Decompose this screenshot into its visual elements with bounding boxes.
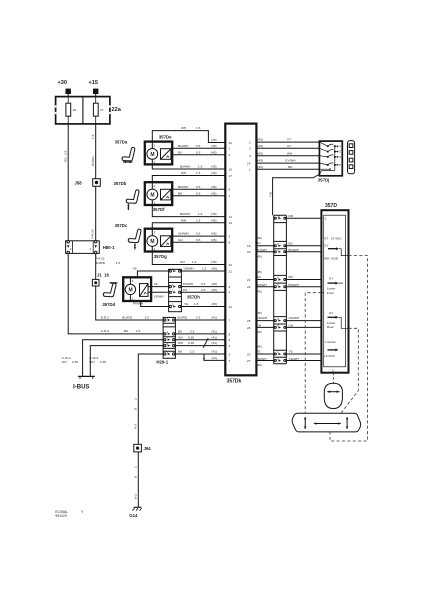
- svg-text:14: 14: [247, 162, 251, 166]
- svg-text:(41): (41): [212, 330, 218, 334]
- svg-text:BU/WH: BU/WH: [178, 144, 188, 148]
- svg-text:0.5: 0.5: [196, 232, 201, 236]
- svg-text:6: 6: [229, 188, 231, 192]
- svg-text:GN: GN: [178, 335, 183, 339]
- svg-text:357Da: 357Da: [115, 140, 128, 145]
- svg-text:(45): (45): [256, 236, 262, 240]
- wire 357Dd M- via 357Dh to pin 12: [133, 301, 225, 307]
- svg-text:BU/RD: BU/RD: [122, 315, 132, 319]
- svg-text:357Df: 357Df: [153, 207, 165, 212]
- motor unit 357Dg: [145, 229, 172, 259]
- svg-text:4: 4: [229, 194, 231, 198]
- svg-text:1: 1: [339, 144, 341, 148]
- dashed link 357D to seat switch (left): [305, 293, 321, 414]
- svg-text:19: 19: [229, 221, 233, 225]
- svg-text:GN: GN: [256, 324, 261, 328]
- svg-text:BU: BU: [256, 241, 260, 245]
- svg-text:Front: Front: [327, 291, 334, 295]
- seat icon 357Da (fore/aft): [115, 140, 135, 164]
- wire 357Dk to 357Dj (GY/WH): [256, 159, 319, 163]
- svg-text:(45): (45): [256, 363, 262, 367]
- svg-text:1.5: 1.5: [192, 260, 197, 264]
- dashed link 357D to seat switch (right outer): [330, 256, 368, 441]
- svg-text:10: 10: [229, 141, 233, 145]
- svg-text:GY/WH: GY/WH: [285, 159, 295, 163]
- svg-text:YE: YE: [256, 350, 260, 354]
- wire 357Dg M- to pin 20: [152, 252, 225, 265]
- svg-text:1.5: 1.5: [196, 126, 201, 130]
- svg-text:12: 12: [229, 305, 233, 309]
- svg-text:(45): (45): [211, 212, 217, 216]
- svg-text:P/4-22: P/4-22: [90, 229, 94, 238]
- svg-text:M: M: [129, 287, 133, 293]
- wire 357Dj common down to H-strip: [269, 174, 330, 215]
- svg-text:H80-1: H80-1: [103, 245, 115, 250]
- svg-text:1: 1: [249, 168, 251, 172]
- svg-text:BN/WH: BN/WH: [178, 185, 188, 189]
- wire 357Dg sensor to pin 3: [172, 232, 225, 236]
- wire 357De M- to pin 15: [152, 164, 225, 169]
- 357Dk right pin numbers: [247, 141, 251, 363]
- svg-text:(45): (45): [211, 165, 217, 169]
- svg-text:5: 5: [229, 241, 231, 245]
- wire 357Dk to 357D (BN/WH): [256, 283, 321, 293]
- svg-text:(45): (45): [258, 151, 264, 155]
- svg-text:RD: RD: [288, 165, 293, 169]
- headrest knob symbol: [324, 383, 342, 408]
- wire 357Dk to 357Dj (VT): [256, 138, 319, 142]
- svg-text:Lumbar: Lumbar: [325, 340, 336, 344]
- seat icon 357Dc (rear height): [115, 223, 141, 250]
- svg-text:BU/RD: BU/RD: [178, 316, 188, 320]
- svg-text:BN/WH: BN/WH: [180, 212, 190, 216]
- svg-text:20: 20: [247, 250, 251, 254]
- wire 357Dd sensor via 357Dh: [151, 288, 225, 299]
- svg-text:YE: YE: [133, 267, 137, 271]
- svg-text:3: 3: [339, 155, 341, 159]
- svg-text:26: 26: [73, 108, 77, 112]
- svg-text:YE/WH: YE/WH: [184, 267, 194, 271]
- svg-text:BN/WH: BN/WH: [289, 283, 299, 287]
- svg-text:1.5: 1.5: [194, 302, 199, 306]
- svg-text:A-3: A-3: [133, 424, 137, 429]
- svg-text:7: 7: [229, 318, 231, 322]
- svg-text:8: 8: [229, 332, 231, 336]
- svg-text:PK/WH: PK/WH: [133, 302, 143, 306]
- svg-text:(45): (45): [211, 150, 217, 154]
- svg-text:BU: BU: [178, 150, 182, 154]
- svg-text:2.5: 2.5: [136, 329, 141, 333]
- svg-text:J94: J94: [144, 446, 152, 451]
- svg-text:0.5: 0.5: [196, 150, 201, 154]
- connector H80-1: [66, 229, 115, 254]
- svg-text:0.5: 0.5: [201, 288, 206, 292]
- svg-text:0.5: 0.5: [196, 191, 201, 195]
- svg-text:(45): (45): [211, 138, 217, 142]
- svg-text:357De: 357De: [159, 134, 172, 139]
- svg-text:GN: GN: [62, 360, 67, 364]
- svg-text:18: 18: [247, 244, 251, 248]
- wire supply +30 down to H29-1: [68, 94, 163, 334]
- svg-text:2: 2: [132, 279, 134, 283]
- svg-text:(45): (45): [256, 330, 262, 334]
- svg-text:+5 VDC: +5 VDC: [324, 354, 336, 358]
- svg-text:(45): (45): [212, 282, 218, 286]
- svg-text:GY: GY: [329, 277, 333, 281]
- svg-text:1: 1: [325, 216, 327, 220]
- svg-text:357Dd: 357Dd: [102, 302, 115, 307]
- svg-text:GN: GN: [178, 238, 183, 242]
- wire 357De sensor to pin 1: [172, 144, 225, 148]
- svg-text:(45): (45): [256, 254, 262, 258]
- svg-text:(45): (45): [212, 267, 218, 271]
- wire label BK 2.0 below J94 (rotated): [133, 466, 137, 499]
- svg-text:1.5: 1.5: [116, 261, 121, 265]
- svg-text:357Db: 357Db: [114, 181, 127, 186]
- svg-text:2.5: 2.5: [196, 316, 201, 320]
- wire 357Dk to 357D (GN/WH): [256, 311, 321, 321]
- svg-text:21: 21: [229, 269, 233, 273]
- svg-text:1: 1: [89, 247, 91, 251]
- motor unit 357Dd (backrest motor): [123, 277, 151, 301]
- svg-text:J1 18: J1 18: [97, 272, 110, 277]
- wire 357Dk to 357Dj (RD): [256, 165, 319, 169]
- svg-text:(45): (45): [256, 270, 262, 274]
- svg-text:(45): (45): [211, 232, 217, 236]
- svg-text:YE: YE: [154, 282, 158, 286]
- svg-text:(45): (45): [211, 185, 217, 189]
- svg-text:2: 2: [229, 285, 231, 289]
- svg-text:(45): (45): [211, 218, 217, 222]
- control module 357D: [321, 203, 348, 373]
- svg-text:GY: GY: [329, 311, 333, 315]
- dashed link 357D to headrest knob: [333, 373, 335, 384]
- svg-text:357Dh: 357Dh: [187, 294, 200, 299]
- svg-text:2: 2: [332, 368, 334, 372]
- wire label C-R-2 BK 2.5: [101, 329, 141, 333]
- seat icon 357Dd (head restraint): [102, 282, 117, 308]
- svg-text:2.5: 2.5: [190, 330, 195, 334]
- svg-text:(45): (45): [211, 260, 217, 264]
- svg-text:4: 4: [249, 154, 251, 158]
- wire 357De M+ to 357Dk pin 10: [152, 126, 225, 142]
- motor unit 357De: [145, 134, 172, 164]
- svg-text:21: 21: [247, 278, 251, 282]
- svg-text:357Dg: 357Dg: [154, 254, 167, 259]
- svg-text:(45): (45): [211, 238, 217, 242]
- wire label RD 2.5 (left supply, rotated): [63, 150, 67, 162]
- connector J94: [134, 444, 151, 452]
- fuse box 22a: [55, 97, 122, 124]
- svg-text:BU/RD: BU/RD: [95, 261, 105, 265]
- svg-text:GY: GY: [287, 144, 291, 148]
- svg-text:E-R-2: E-R-2: [101, 315, 109, 319]
- svg-text:I-BUS: I-BUS: [73, 384, 89, 390]
- svg-text:3: 3: [229, 235, 231, 239]
- wire 357Dk to 357Dj (WH): [256, 151, 319, 155]
- motor unit 357Df: [145, 182, 172, 212]
- svg-text:8: 8: [339, 163, 341, 167]
- svg-text:WH: WH: [89, 360, 94, 364]
- svg-text:0.35: 0.35: [188, 335, 194, 339]
- connector H29-1: [156, 316, 175, 365]
- svg-text:0.35: 0.35: [100, 360, 106, 364]
- svg-text:1: 1: [229, 147, 231, 151]
- svg-text:3: 3: [249, 147, 251, 151]
- svg-text:WH: WH: [178, 341, 183, 345]
- svg-text:B-2: B-2: [133, 494, 137, 499]
- svg-text:WH: WH: [181, 126, 186, 130]
- svg-text:(45): (45): [256, 311, 262, 315]
- svg-text:2: 2: [339, 150, 341, 154]
- svg-text:357D: 357D: [325, 203, 337, 209]
- svg-text:24: 24: [247, 285, 251, 289]
- svg-text:5: 5: [229, 338, 231, 342]
- svg-text:(45): (45): [258, 138, 264, 142]
- svg-text:B: B: [133, 476, 137, 478]
- wire I-bus WH to I-BUS rail: [90, 346, 163, 376]
- svg-text:YE/WH: YE/WH: [289, 357, 299, 361]
- svg-text:BU/RD: BU/RD: [91, 156, 95, 166]
- svg-text:357Dj: 357Dj: [318, 178, 329, 183]
- svg-text:H29-1: H29-1: [156, 360, 168, 365]
- svg-text:2: 2: [133, 466, 137, 468]
- connector 357Dh: [169, 267, 201, 311]
- svg-text:(45): (45): [211, 144, 217, 148]
- svg-text:4: 4: [229, 291, 231, 295]
- svg-text:WH: WH: [181, 218, 186, 222]
- wire H29-1 to 357Dk (WH 0.35 I-bus): [175, 341, 225, 345]
- wire 357Dg M+ to pin 19: [152, 218, 225, 228]
- connector ladder strip (between 357Dk and 357D): [274, 215, 287, 364]
- svg-text:20: 20: [229, 263, 233, 267]
- connector strip (4 terminals) right of 357Dj: [348, 141, 355, 174]
- harness connector 357Dk: [225, 124, 256, 385]
- svg-text:BN: BN: [289, 275, 293, 279]
- svg-text:1.5: 1.5: [196, 218, 201, 222]
- svg-text:(45): (45): [212, 288, 218, 292]
- svg-text:RD: RD: [289, 214, 294, 218]
- wire 357Dk to 357D (YE): [256, 344, 321, 354]
- svg-text:VT +5 VDC: VT +5 VDC: [324, 237, 342, 241]
- svg-text:Rear: Rear: [327, 325, 334, 329]
- svg-text:BU/WH: BU/WH: [180, 165, 190, 169]
- svg-text:GN/WH: GN/WH: [178, 232, 189, 236]
- svg-text:2: 2: [229, 153, 231, 157]
- wire label E-R-2 BU/RD 2.5: [101, 315, 149, 319]
- svg-text:(45): (45): [211, 171, 217, 175]
- svg-text:22: 22: [247, 352, 251, 356]
- wire 357Dg sensor to pin 5: [172, 238, 225, 242]
- svg-text:BU/WH: BU/WH: [289, 248, 299, 252]
- fuse 27: [93, 97, 103, 124]
- svg-text:1.0: 1.0: [190, 350, 195, 354]
- svg-text:YE: YE: [184, 302, 188, 306]
- svg-text:BU/WH: BU/WH: [256, 248, 266, 252]
- connector J1 18: [92, 272, 109, 286]
- svg-text:GN/WH: GN/WH: [289, 316, 300, 320]
- svg-text:(45): (45): [258, 144, 264, 148]
- svg-text:PK/WH: PK/WH: [183, 282, 193, 286]
- wire H29-1 to 357Dk pin (BU/RD 2.5): [175, 316, 225, 320]
- svg-text:GY: GY: [324, 243, 328, 247]
- seat adjuster switch symbol: [292, 413, 361, 432]
- svg-text:GN/WH: GN/WH: [256, 316, 267, 320]
- svg-text:3: 3: [229, 352, 231, 356]
- svg-text:BN: BN: [178, 191, 182, 195]
- svg-text:1.5: 1.5: [202, 267, 207, 271]
- terminal +30: [58, 80, 71, 94]
- svg-text:0.35: 0.35: [188, 341, 194, 345]
- svg-text:YE: YE: [289, 350, 293, 354]
- wire 357Dk to 357D (BU/WH): [256, 248, 321, 258]
- switch pack 357Dj: [319, 141, 342, 176]
- svg-text:(41): (41): [212, 335, 218, 339]
- svg-text:(45): (45): [256, 344, 262, 348]
- wire label BK 2.0 (rotated): [133, 398, 137, 429]
- wire label BU/RD 1.5 (right supply, rotated): [91, 134, 95, 166]
- svg-text:GN: GN: [289, 324, 294, 328]
- svg-text:(45): (45): [258, 165, 264, 169]
- wire ground BK to G14: [138, 354, 163, 507]
- svg-text:26: 26: [247, 326, 251, 330]
- wire 357Dk to 357D (BU): [256, 236, 321, 246]
- svg-text:(41): (41): [212, 350, 218, 354]
- svg-text:2: 2: [249, 141, 251, 145]
- svg-text:C-R-2: C-R-2: [101, 329, 110, 333]
- 357Dk left pin numbers: [229, 141, 233, 363]
- wire 357De sensor to pin 2: [172, 150, 225, 154]
- connector J58: [75, 179, 101, 187]
- svg-text:B: B: [133, 408, 137, 410]
- wire H29-1 to 357Dk (BK 1.0): [175, 350, 225, 354]
- svg-text:0.5: 0.5: [196, 238, 201, 242]
- wire 357Dk to 357D (GN): [256, 324, 321, 334]
- svg-text:0.5: 0.5: [201, 282, 206, 286]
- svg-text:357Dc: 357Dc: [115, 223, 128, 228]
- svg-text:YE/WH: YE/WH: [256, 357, 266, 361]
- svg-text:(41): (41): [212, 356, 218, 360]
- wire RD from strip to 357D pin 1: [286, 214, 321, 218]
- svg-text:4: 4: [229, 344, 231, 348]
- svg-text:RD: RD: [269, 191, 273, 196]
- wire 357Df M+ to pin 17: [152, 171, 225, 182]
- svg-text:991029: 991029: [55, 514, 66, 518]
- svg-text:VT: VT: [287, 138, 291, 142]
- svg-text:BN/WH: BN/WH: [256, 283, 266, 287]
- svg-text:G14: G14: [129, 513, 138, 518]
- svg-text:(45): (45): [212, 302, 218, 306]
- svg-text:(45): (45): [258, 159, 264, 163]
- wire 357Df sensor to pin 4: [172, 191, 225, 195]
- terminal +15: [89, 80, 99, 94]
- svg-text:WH: WH: [181, 171, 186, 175]
- svg-text:22a: 22a: [112, 107, 122, 113]
- wire supply +15 down to H29-1: [96, 94, 163, 320]
- svg-text:WH GND: WH GND: [324, 256, 339, 260]
- svg-text:WH: WH: [287, 151, 292, 155]
- wire 357Dk to 357Dj (GY): [256, 144, 319, 148]
- svg-text:1.5: 1.5: [198, 165, 203, 169]
- svg-text:RD 2.5: RD 2.5: [63, 150, 67, 162]
- svg-text:25: 25: [247, 319, 251, 323]
- wire 357Df sensor to pin 6: [172, 185, 225, 189]
- svg-text:1: 1: [132, 297, 134, 301]
- node I-BUS rail: [73, 376, 95, 390]
- seat icon 357Db (front height): [114, 181, 139, 210]
- svg-text:(41): (41): [212, 341, 218, 345]
- svg-text:+15: +15: [89, 80, 99, 86]
- svg-text:BU: BU: [289, 241, 293, 245]
- svg-text:+30: +30: [58, 80, 68, 86]
- svg-text:J58: J58: [75, 181, 83, 186]
- wire 357Dd M+ via 357Dh to pin 21: [133, 267, 226, 278]
- svg-text:0.5: 0.5: [196, 185, 201, 189]
- svg-text:1.5: 1.5: [91, 134, 95, 139]
- wire label P/4-22 BU/RD 1.5: [95, 257, 120, 265]
- svg-text:2.5: 2.5: [145, 315, 150, 319]
- svg-text:1.5: 1.5: [196, 171, 201, 175]
- svg-text:357Dk: 357Dk: [227, 378, 242, 384]
- svg-text:7: 7: [229, 359, 231, 363]
- wire branch to 357Dk lower pin: [203, 354, 225, 360]
- twisted pair slash: [203, 338, 208, 348]
- svg-text:BN: BN: [256, 275, 260, 279]
- document number EC06AL 991029: [55, 510, 84, 518]
- svg-text:12: 12: [229, 215, 233, 219]
- svg-text:0.35: 0.35: [72, 360, 78, 364]
- svg-text:2: 2: [133, 398, 137, 400]
- wire H29-1 to 357Dk (GN 0.35 I-bus): [175, 335, 225, 339]
- svg-text:17: 17: [229, 174, 233, 178]
- ground G14: [129, 507, 141, 518]
- svg-text:15: 15: [229, 167, 233, 171]
- wire label C-W-2 GN 0.35: [62, 356, 79, 364]
- wire label C-W-5 WH 0.35: [89, 356, 106, 364]
- wire H29-1 to 357Dk (BK 2.5): [175, 330, 225, 334]
- svg-text:27: 27: [100, 108, 104, 112]
- svg-text:YE/WH: YE/WH: [154, 295, 164, 299]
- fuse 26: [66, 97, 76, 124]
- svg-text:2: 2: [70, 247, 72, 251]
- svg-text:(45): (45): [256, 290, 262, 294]
- wire 357Dd sensor via 357Dh: [151, 282, 225, 286]
- svg-text:(41): (41): [212, 316, 218, 320]
- svg-text:GN: GN: [180, 260, 185, 264]
- wire I-bus GN to I-BUS rail: [83, 340, 164, 376]
- svg-text:(45): (45): [211, 191, 217, 195]
- wire 357Dk to 357D (BN): [256, 270, 321, 280]
- svg-text:1.5: 1.5: [198, 212, 203, 216]
- svg-text:27: 27: [247, 359, 251, 363]
- dashed link 357D to seat switch (right inner, diagonal): [341, 328, 358, 412]
- wire 357Dk to 357D (YE/WH): [256, 357, 321, 367]
- svg-text:0.5: 0.5: [196, 144, 201, 148]
- wire 357Df M- to pin 12: [152, 205, 225, 217]
